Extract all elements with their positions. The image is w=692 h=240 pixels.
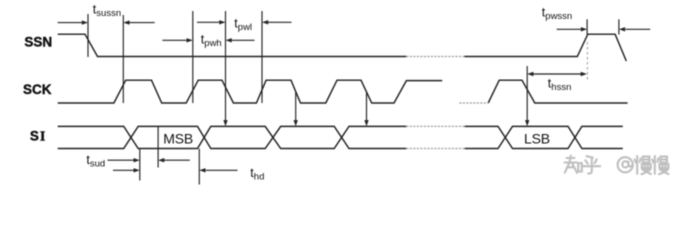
svg-text:SI: SI <box>30 128 45 144</box>
svg-text:SSN: SSN <box>24 35 52 50</box>
svg-text:SCK: SCK <box>23 82 52 97</box>
svg-text:LSB: LSB <box>524 131 550 147</box>
svg-text:MSB: MSB <box>163 131 193 147</box>
